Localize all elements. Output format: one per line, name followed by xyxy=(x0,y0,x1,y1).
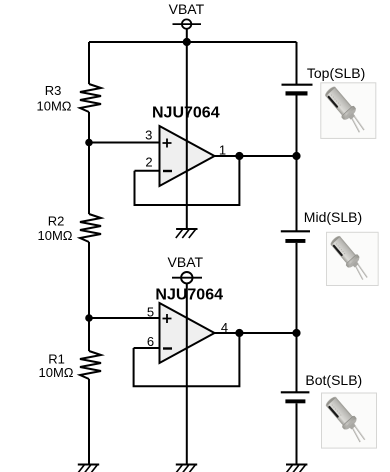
ground (left rail) xyxy=(78,465,100,472)
junction: U2 output node xyxy=(235,329,243,337)
op-amp U2 plus mark xyxy=(163,314,172,323)
svg-text:2: 2 xyxy=(145,155,152,170)
wire: right rail bottom xyxy=(296,403,298,464)
junction: U1 output node xyxy=(235,152,243,160)
wire: V+ rail through U1 xyxy=(186,42,188,229)
ground (U1) xyxy=(176,229,198,238)
svg-text:VBAT: VBAT xyxy=(169,1,205,17)
svg-text:6: 6 xyxy=(147,334,154,349)
junction: VBAT on bus xyxy=(183,38,191,46)
junction: node at pin3 xyxy=(85,139,93,147)
wire: left rail bottom xyxy=(88,379,90,465)
power symbol VBAT (top) xyxy=(173,19,202,28)
svg-text:Bot(SLB): Bot(SLB) xyxy=(305,372,362,388)
sensor Bot(SLB) symbol xyxy=(281,392,310,403)
svg-text:10MΩ: 10MΩ xyxy=(37,228,72,243)
resistor R3 xyxy=(80,84,101,112)
resistor R1 xyxy=(80,351,101,379)
svg-text:NJU7064: NJU7064 xyxy=(152,105,220,122)
op-amp U1 body xyxy=(160,126,215,186)
wire: pin6 stub xyxy=(134,347,160,349)
wire: pin2 stub xyxy=(135,170,160,172)
svg-text:1: 1 xyxy=(219,143,226,158)
svg-text:3: 3 xyxy=(145,128,152,143)
svg-text:Mid(SLB): Mid(SLB) xyxy=(304,209,362,225)
op-amp U1 plus mark xyxy=(163,139,172,148)
op-amp U2 body xyxy=(160,303,215,363)
sensor Top(SLB) symbol xyxy=(282,85,313,96)
wire: right rail Top to Mid xyxy=(296,96,298,232)
svg-text:R3: R3 xyxy=(45,83,62,98)
wire: right rail top xyxy=(296,42,298,85)
wire: left rail top xyxy=(88,42,90,84)
wire: U2 output xyxy=(215,332,297,334)
wire: right rail Mid to Bot xyxy=(296,243,298,392)
svg-text:10MΩ: 10MΩ xyxy=(38,365,73,380)
wire: pin3 stub xyxy=(89,142,160,144)
resistor R2 xyxy=(80,214,101,242)
svg-text:R2: R2 xyxy=(48,214,65,229)
op-amp U1 minus mark xyxy=(163,170,172,172)
svg-text:5: 5 xyxy=(147,305,154,320)
op-amp U2 minus mark xyxy=(163,347,172,349)
wire: U1 output xyxy=(215,155,297,157)
photo Top(SLB) sensor xyxy=(321,83,376,139)
wire: pin5 stub xyxy=(89,317,160,319)
junction: node at pin5 xyxy=(85,314,93,322)
ground (right rail) xyxy=(286,465,308,472)
junction: Mid/Bot node xyxy=(292,329,300,337)
wire: V+ rail through U2 xyxy=(186,283,188,464)
svg-text:4: 4 xyxy=(221,320,228,335)
photo Mid(SLB) sensor xyxy=(326,232,378,285)
svg-text:VBAT: VBAT xyxy=(168,254,204,270)
svg-text:NJU7064: NJU7064 xyxy=(155,287,223,304)
junction: Top/Mid node xyxy=(292,152,300,160)
wire: left rail R2 to R1 xyxy=(88,242,90,351)
ground (mid rail) xyxy=(176,465,198,472)
photo Bot(SLB) sensor xyxy=(322,393,377,448)
wire: VBAT top bus xyxy=(89,41,297,43)
sensor Mid(SLB) symbol xyxy=(281,231,310,243)
wire: U2 feedback xyxy=(134,333,240,386)
power symbol VBAT (bottom) xyxy=(172,272,202,283)
svg-text:10MΩ: 10MΩ xyxy=(36,99,71,114)
wire: U1 feedback xyxy=(135,156,240,205)
wire: left rail R3 to R2 xyxy=(88,112,90,214)
wire: VBAT drop to bus xyxy=(186,29,188,43)
svg-text:Top(SLB): Top(SLB) xyxy=(307,65,365,81)
